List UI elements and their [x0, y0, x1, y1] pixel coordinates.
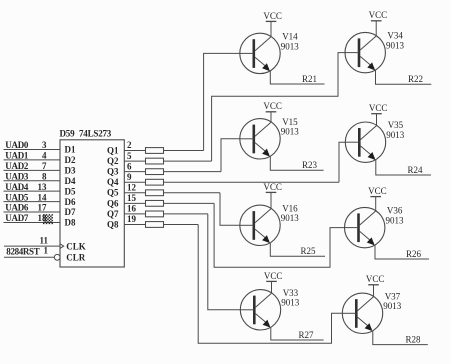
svg-text:R25: R25 — [301, 246, 317, 256]
svg-text:Q3: Q3 — [107, 167, 119, 177]
wire from resistor Q8 — [164, 223, 199, 225]
svg-text:Q2: Q2 — [107, 156, 119, 166]
wire Q7 to resistor — [124, 213, 145, 215]
svg-text:D2: D2 — [65, 155, 76, 165]
svg-text:VCC: VCC — [264, 271, 283, 281]
emitter wire of V37 with net label R28 — [373, 331, 428, 345]
emitter wire of V33 with net label R27 — [271, 327, 324, 340]
IC U-D59 74LS273 body — [60, 140, 124, 267]
svg-text:UAD2: UAD2 — [5, 161, 29, 171]
svg-text:6: 6 — [127, 161, 132, 171]
wire Q6 to V36 base (jog) — [214, 203, 345, 267]
series resistor on Q8 line — [146, 222, 164, 228]
input wire UAD3 to pin D4 — [4, 180, 61, 182]
svg-text:Q5: Q5 — [107, 188, 119, 198]
transistor V14 — [240, 33, 280, 73]
svg-text:14: 14 — [38, 192, 48, 202]
svg-text:8: 8 — [42, 171, 47, 181]
svg-text:4: 4 — [42, 151, 47, 161]
svg-text:V33: V33 — [283, 288, 299, 298]
svg-text:Q1: Q1 — [107, 145, 119, 155]
VCC power symbol for V16 — [263, 182, 282, 209]
inversion bubble on CLR pin — [54, 254, 60, 260]
svg-text:9013: 9013 — [386, 41, 405, 51]
svg-text:UAD6: UAD6 — [5, 203, 29, 213]
series resistor on Q6 line — [146, 200, 164, 206]
wire Q5 to resistor — [124, 192, 145, 194]
input wire UAD0 to pin D1 — [4, 149, 61, 151]
svg-text:V15: V15 — [282, 117, 298, 127]
series resistor on Q1 line — [146, 148, 164, 154]
svg-text:Q7: Q7 — [107, 209, 119, 219]
designator label V16 — [281, 203, 300, 223]
svg-text:V36: V36 — [387, 206, 403, 216]
wire from resistor Q1 — [164, 150, 204, 152]
svg-text:D1: D1 — [65, 145, 76, 155]
designator label V14 — [281, 31, 300, 51]
wire Q8 to resistor — [124, 223, 145, 225]
emitter wire of V15 with net label R23 — [270, 156, 323, 170]
svg-text:13: 13 — [38, 182, 48, 192]
svg-text:V34: V34 — [387, 31, 403, 41]
svg-text:D3: D3 — [65, 166, 76, 176]
designator label V34 — [386, 31, 405, 51]
VCC power symbol for V37 — [366, 274, 385, 297]
svg-text:R24: R24 — [408, 165, 424, 175]
svg-text:R28: R28 — [406, 334, 422, 344]
svg-text:UAD3: UAD3 — [5, 171, 29, 181]
svg-text:9013: 9013 — [386, 130, 405, 140]
svg-text:19: 19 — [127, 214, 137, 224]
svg-text:UAD1: UAD1 — [5, 151, 29, 161]
svg-text:VCC: VCC — [369, 103, 388, 113]
emitter wire of V16 with net label R25 — [270, 243, 325, 256]
svg-text:CLK: CLK — [66, 241, 86, 251]
svg-text:9013: 9013 — [281, 213, 300, 223]
svg-text:8284RST: 8284RST — [6, 247, 39, 257]
input wire UAD6 to pin D7 — [4, 211, 61, 213]
svg-text:15: 15 — [127, 193, 137, 203]
svg-text:11: 11 — [39, 235, 48, 245]
svg-text:V14: V14 — [282, 31, 298, 41]
designator label V35 — [386, 120, 405, 140]
svg-text:2: 2 — [127, 140, 132, 150]
designator label V36 — [386, 206, 405, 226]
wire Q1 riser to V14 base — [204, 53, 240, 150]
wire Q6 to resistor — [124, 202, 145, 204]
transistor V36 — [345, 207, 385, 247]
wire from resistor Q2 — [164, 160, 212, 162]
series resistor on Q5 line — [146, 190, 164, 196]
VCC power symbol for V35 — [369, 103, 388, 126]
svg-text:12: 12 — [127, 182, 137, 192]
svg-text:R27: R27 — [299, 330, 315, 340]
wire from resistor Q6 — [164, 202, 215, 204]
wire Q1 to resistor — [124, 150, 145, 152]
svg-text:1: 1 — [44, 246, 49, 256]
svg-text:VCC: VCC — [368, 186, 387, 196]
svg-text:UAD5: UAD5 — [5, 192, 29, 202]
VCC power symbol for V34 — [369, 10, 388, 36]
wire from resistor Q7 — [164, 213, 208, 215]
svg-text:VCC: VCC — [263, 182, 282, 192]
transistor V34 — [345, 32, 385, 72]
svg-text:9013: 9013 — [386, 216, 405, 226]
wire from resistor Q4 — [164, 181, 340, 183]
wire Q2 to resistor — [124, 160, 145, 162]
svg-text:UAD4: UAD4 — [5, 182, 29, 192]
wire Q7 riser to V33 base — [208, 214, 241, 310]
input wire UAD2 to pin D3 — [4, 169, 61, 171]
input wire UAD7 to pin D8 — [4, 221, 61, 223]
svg-text:D6: D6 — [65, 197, 76, 207]
svg-text:VCC: VCC — [263, 101, 282, 111]
VCC power symbol for V36 — [368, 186, 387, 211]
emitter wire of V36 with net label R26 — [375, 245, 429, 259]
svg-text:D5: D5 — [65, 186, 76, 196]
input wire UAD5 to pin D6 — [4, 201, 61, 203]
svg-text:UAD0: UAD0 — [5, 140, 29, 150]
emitter wire of V34 with net label R22 — [376, 70, 432, 84]
transistor V33 — [240, 290, 280, 330]
transistor V35 — [345, 122, 385, 162]
wire Q2 to V34 base (jog) — [212, 53, 346, 161]
svg-text:Q6: Q6 — [107, 198, 119, 208]
svg-text:9: 9 — [127, 172, 132, 182]
designator label V37 — [383, 291, 402, 311]
svg-text:VCC: VCC — [263, 11, 282, 21]
svg-text:V16: V16 — [282, 203, 298, 213]
svg-text:7: 7 — [42, 161, 47, 171]
svg-text:9013: 9013 — [281, 127, 300, 137]
wire Q4 to V35 base — [339, 142, 346, 182]
svg-text:VCC: VCC — [369, 10, 388, 20]
svg-text:3: 3 — [42, 140, 47, 150]
svg-text:9013: 9013 — [383, 301, 402, 311]
svg-text:D4: D4 — [65, 176, 76, 186]
svg-text:V37: V37 — [385, 291, 401, 301]
series resistor on Q3 line — [146, 169, 164, 175]
svg-text:9013: 9013 — [281, 41, 300, 51]
designator label V33 — [281, 288, 300, 308]
transistor V16 — [240, 205, 280, 245]
svg-text:V35: V35 — [388, 120, 404, 130]
transistor V15 — [240, 119, 280, 159]
wire Q5 riser to V16 base — [220, 193, 240, 226]
transistor V37 — [342, 293, 382, 333]
svg-text:17: 17 — [38, 203, 48, 213]
svg-text:9013: 9013 — [281, 298, 300, 308]
svg-text:D7: D7 — [65, 207, 76, 217]
svg-text:5: 5 — [127, 151, 132, 161]
svg-text:Q4: Q4 — [107, 177, 119, 187]
CLR input wire — [4, 256, 54, 258]
wire from resistor Q3 — [164, 171, 222, 173]
svg-text:R21: R21 — [302, 74, 317, 84]
svg-text:UAD7: UAD7 — [5, 213, 29, 223]
wire Q3 to resistor — [124, 171, 145, 173]
svg-text:CLR: CLR — [66, 253, 86, 263]
svg-text:16: 16 — [127, 204, 137, 214]
svg-text:R26: R26 — [406, 249, 422, 259]
emitter wire of V14 with net label R21 — [270, 71, 324, 84]
series resistor on Q4 line — [146, 179, 164, 185]
svg-text:Q8: Q8 — [107, 219, 119, 229]
VCC power symbol for V33 — [264, 271, 283, 293]
wire Q3 riser to V15 base — [221, 139, 240, 172]
svg-text:R23: R23 — [302, 160, 318, 170]
emitter wire of V35 with net label R24 — [376, 160, 431, 175]
svg-text:R22: R22 — [408, 74, 423, 84]
VCC power symbol for V15 — [263, 101, 282, 122]
wire Q8 to V37 base (jog) — [198, 224, 342, 343]
svg-text:D8: D8 — [65, 218, 76, 228]
series resistor on Q7 line — [146, 211, 164, 217]
input wire UAD1 to pin D2 — [4, 159, 61, 161]
input wire UAD4 to pin D5 — [4, 190, 61, 192]
svg-text:VCC: VCC — [366, 274, 385, 284]
smudge artifact next to pin 18 — [43, 214, 53, 224]
svg-text:D59: D59 — [60, 128, 76, 138]
wire from resistor Q5 — [164, 192, 221, 194]
series resistor on Q2 line — [146, 158, 164, 164]
CLK input wire — [4, 245, 60, 247]
wire Q4 to resistor — [124, 181, 145, 183]
designator label V15 — [281, 117, 300, 137]
VCC power symbol for V14 — [263, 11, 282, 37]
svg-text:74LS273: 74LS273 — [79, 128, 112, 138]
clock edge triangle on CLK pin — [60, 244, 64, 249]
